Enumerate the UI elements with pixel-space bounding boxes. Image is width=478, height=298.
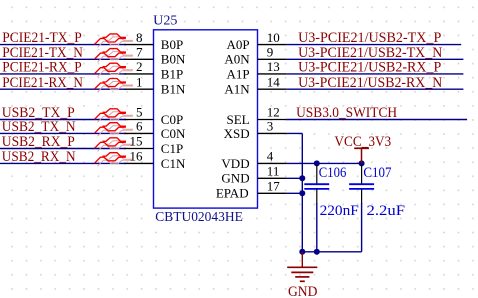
- svg-text:VCC_3V3: VCC_3V3: [334, 134, 391, 150]
- pin 2 B1P: [124, 73, 153, 75]
- svg-text:U25: U25: [153, 13, 177, 28]
- wire net PCIE21-RX_N: [0, 88, 126, 90]
- wire net PCIE21-TX_P: [0, 44, 126, 46]
- svg-text:GND: GND: [288, 284, 318, 298]
- diff-pair directive row4: [95, 79, 134, 93]
- svg-text:U3-PCIE21/USB2-RX_N: U3-PCIE21/USB2-RX_N: [298, 75, 442, 91]
- pin 8 B0P: [124, 44, 153, 46]
- svg-text:C1N: C1N: [161, 156, 186, 171]
- diff-pair directive row3: [95, 63, 134, 77]
- pin 12 SEL: [258, 119, 287, 121]
- svg-text:1: 1: [136, 74, 143, 89]
- svg-text:B1N: B1N: [161, 82, 186, 97]
- wire net USB3.0_SWITCH: [286, 119, 467, 121]
- wire net U3-PCIE21/USB2-TX_P: [286, 44, 461, 46]
- junction dot EPAD row: [299, 190, 305, 196]
- svg-text:C107: C107: [363, 165, 391, 181]
- pin 6 C0N: [124, 132, 153, 134]
- pin 16 C1N: [124, 162, 153, 164]
- pin 11 GND: [258, 177, 287, 179]
- pin 3 XSD: [258, 132, 287, 134]
- svg-text:USB3.0_SWITCH: USB3.0_SWITCH: [296, 105, 397, 121]
- svg-text:EPAD: EPAD: [216, 186, 249, 201]
- junction dot bottom rail: [299, 249, 305, 255]
- wire GND pin to rail: [286, 177, 302, 179]
- svg-text:2: 2: [136, 59, 143, 74]
- svg-text:B0P: B0P: [161, 37, 183, 52]
- svg-text:A0N: A0N: [224, 52, 250, 67]
- svg-text:9: 9: [267, 45, 274, 60]
- wire net U3-PCIE21/USB2-RX_P: [286, 73, 463, 75]
- svg-text:SEL: SEL: [226, 112, 249, 127]
- svg-text:A0P: A0P: [226, 37, 249, 52]
- pin 4 VDD: [258, 162, 287, 164]
- wire net USB2_TX_P: [0, 119, 126, 121]
- wire C106 bottom lead lower: [316, 203, 318, 252]
- svg-text:3: 3: [267, 119, 274, 134]
- junction dot VCC/C107 top: [359, 160, 365, 166]
- svg-text:PCIE21-TX_P: PCIE21-TX_P: [2, 30, 81, 46]
- power symbol VCC_3V3: [354, 148, 369, 163]
- pin 10 A0P: [258, 44, 287, 46]
- svg-text:15: 15: [130, 134, 143, 149]
- svg-text:U3-PCIE21/USB2-TX_P: U3-PCIE21/USB2-TX_P: [298, 30, 441, 46]
- svg-text:A1N: A1N: [224, 82, 250, 97]
- svg-text:13: 13: [267, 59, 280, 74]
- pin 7 B0N: [124, 58, 153, 60]
- pin 14 A1N: [258, 88, 287, 90]
- svg-text:C0N: C0N: [161, 126, 186, 141]
- svg-text:5: 5: [136, 105, 143, 120]
- wire EPAD pin to rail: [286, 192, 302, 194]
- diff-pair directive row6: [95, 123, 134, 137]
- svg-text:GND: GND: [221, 171, 249, 186]
- wire vertical rail x302: [301, 133, 303, 251]
- svg-text:11: 11: [267, 164, 280, 179]
- wire VDD row: [286, 162, 361, 164]
- svg-text:U3-PCIE21/USB2-TX_N: U3-PCIE21/USB2-TX_N: [298, 45, 442, 61]
- svg-text:CBTU02043HE: CBTU02043HE: [155, 210, 243, 225]
- svg-text:C1P: C1P: [161, 141, 183, 156]
- pin 15 C1P: [124, 148, 153, 150]
- wire C107 bottom lead lower: [361, 203, 363, 252]
- wire net USB2_TX_N: [0, 132, 126, 134]
- junction dot C106 top: [314, 160, 320, 166]
- svg-text:XSD: XSD: [224, 126, 250, 141]
- svg-text:PCIE21-RX_N: PCIE21-RX_N: [2, 75, 83, 91]
- wire bottom bus: [302, 251, 361, 253]
- svg-text:12: 12: [267, 105, 280, 120]
- pin 9 A0N: [258, 58, 287, 60]
- svg-text:USB2_RX_P: USB2_RX_P: [2, 134, 75, 150]
- svg-text:PCIE21-RX_P: PCIE21-RX_P: [2, 60, 81, 76]
- diff-pair directive row2: [95, 49, 134, 63]
- diff-pair directive row7: [95, 138, 134, 152]
- svg-text:A1P: A1P: [226, 66, 249, 81]
- svg-text:2.2uF: 2.2uF: [367, 203, 406, 219]
- wire net USB2_RX_P: [0, 148, 126, 150]
- IC U25 body: [154, 30, 258, 208]
- svg-text:16: 16: [130, 149, 144, 164]
- capacitor C107: [349, 165, 374, 204]
- junction dot GND row: [299, 175, 305, 181]
- svg-text:U3-PCIE21/USB2-RX_P: U3-PCIE21/USB2-RX_P: [298, 60, 441, 76]
- ground symbol GND: [287, 252, 317, 281]
- svg-text:C0P: C0P: [161, 112, 183, 127]
- junction dot bottom C106: [314, 249, 320, 255]
- svg-text:10: 10: [267, 30, 280, 45]
- svg-text:VDD: VDD: [221, 156, 249, 171]
- svg-text:7: 7: [136, 45, 143, 60]
- svg-text:PCIE21-TX_N: PCIE21-TX_N: [2, 45, 83, 61]
- svg-text:14: 14: [267, 74, 281, 89]
- wire net PCIE21-RX_P: [0, 73, 126, 75]
- wire XSD to rail: [286, 132, 302, 134]
- svg-text:USB2_RX_N: USB2_RX_N: [2, 149, 76, 165]
- svg-text:8: 8: [136, 30, 143, 45]
- svg-text:6: 6: [136, 119, 143, 134]
- wire net PCIE21-TX_N: [0, 58, 126, 60]
- wire net U3-PCIE21/USB2-TX_N: [286, 58, 463, 60]
- wire net U3-PCIE21/USB2-RX_N: [286, 88, 463, 90]
- diff-pair directive row5: [95, 109, 134, 123]
- svg-text:4: 4: [267, 149, 274, 164]
- pin 13 A1P: [258, 73, 287, 75]
- diff-pair directive row8: [95, 153, 134, 167]
- pin 17 EPAD: [258, 192, 287, 194]
- svg-text:B0N: B0N: [161, 52, 186, 67]
- pin 1 B1N: [124, 88, 153, 90]
- pin 5 C0P: [124, 119, 153, 121]
- svg-text:C106: C106: [319, 165, 347, 181]
- svg-text:B1P: B1P: [161, 66, 183, 81]
- svg-text:17: 17: [267, 179, 281, 194]
- diff-pair directive row1: [95, 34, 134, 48]
- wire net USB2_RX_N: [0, 162, 126, 164]
- svg-text:220nF: 220nF: [320, 203, 359, 219]
- svg-text:USB2_TX_N: USB2_TX_N: [2, 119, 76, 135]
- capacitor C106: [304, 165, 329, 204]
